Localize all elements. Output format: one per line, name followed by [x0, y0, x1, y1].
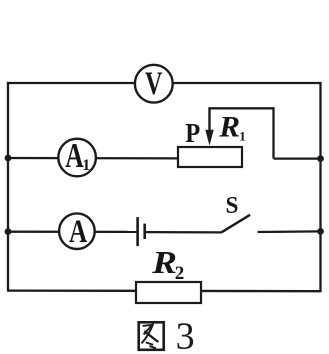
rheostat R1 body	[178, 147, 242, 167]
resistor R2 body	[136, 282, 201, 303]
slider P wiper arrow	[205, 108, 213, 145]
wire bottom	[8, 289, 321, 292]
wire top	[7, 82, 321, 84]
wire row2 right to rail	[274, 157, 321, 159]
ammeter A1	[58, 137, 96, 177]
wire row3 left	[8, 231, 136, 233]
svg-text:A: A	[69, 214, 87, 250]
junction dot left row3	[5, 228, 12, 235]
wire row2 left (node between A1 branch and left rail)	[8, 157, 178, 160]
svg-text:V: V	[145, 66, 163, 103]
switch S arm	[222, 215, 250, 232]
svg-text:A: A	[65, 137, 84, 176]
junction dot right row3	[317, 228, 324, 235]
wire slider bypass horizontal	[208, 107, 273, 109]
svg-text:R: R	[218, 110, 240, 143]
wire battery to switch	[146, 231, 222, 234]
svg-text:S: S	[226, 193, 239, 220]
wire left vertical	[7, 82, 9, 292]
svg-text:3: 3	[176, 315, 195, 354]
battery cell	[138, 217, 145, 246]
svg-text:P: P	[185, 118, 200, 149]
svg-text:1: 1	[239, 129, 246, 144]
wire slider bypass vertical	[272, 107, 274, 158]
label R2	[151, 245, 184, 284]
wire right vertical	[319, 82, 321, 292]
svg-text:2: 2	[175, 263, 185, 284]
junction dot right row2	[317, 155, 324, 162]
caption glyph TU (figure)	[139, 322, 164, 350]
junction dot left row2	[5, 155, 12, 162]
ammeter A	[59, 213, 95, 250]
wire switch contact to right rail	[258, 230, 321, 233]
svg-text:1: 1	[82, 157, 90, 174]
voltmeter U-V	[135, 65, 173, 103]
label R1	[218, 110, 246, 143]
svg-text:R: R	[151, 245, 177, 280]
